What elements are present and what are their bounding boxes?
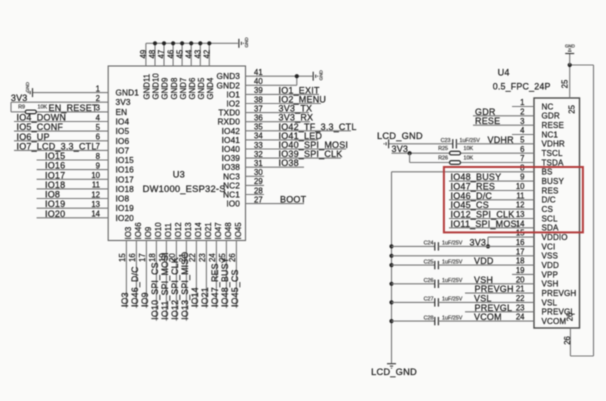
- svg-text:LCD_GND: LCD_GND: [377, 131, 423, 141]
- svg-text:18: 18: [516, 257, 525, 266]
- svg-text:VDDIO: VDDIO: [542, 233, 568, 242]
- svg-text:9: 9: [520, 173, 524, 182]
- svg-text:IO5_CONF: IO5_CONF: [17, 122, 64, 132]
- svg-text:3V3: 3V3: [11, 93, 28, 103]
- svg-text:PREVGH: PREVGH: [542, 289, 577, 298]
- svg-text:VPP: VPP: [542, 270, 559, 279]
- svg-text:PREVGH: PREVGH: [475, 284, 514, 294]
- svg-text:10K: 10K: [38, 105, 48, 111]
- svg-text:3V3: 3V3: [470, 237, 487, 247]
- svg-text:IO19: IO19: [116, 203, 135, 213]
- svg-text:IO20: IO20: [116, 213, 135, 223]
- svg-text:3V3_RX: 3V3_RX: [279, 113, 314, 123]
- svg-text:RESE: RESE: [475, 116, 500, 126]
- svg-text:IO48_BUSY: IO48_BUSY: [220, 257, 230, 307]
- svg-text:BOOT: BOOT: [280, 195, 307, 205]
- svg-text:C24: C24: [424, 241, 434, 247]
- svg-text:IO42_TF_3.3_CTL: IO42_TF_3.3_CTL: [279, 122, 357, 132]
- svg-text:11: 11: [516, 191, 524, 200]
- svg-text:TSCL: TSCL: [542, 149, 563, 158]
- svg-text:20: 20: [516, 275, 525, 284]
- svg-text:3V3_TX: 3V3_TX: [279, 104, 313, 114]
- svg-text:26: 26: [563, 336, 572, 345]
- svg-text:IO18: IO18: [45, 180, 65, 190]
- svg-text:C23: C23: [441, 138, 451, 144]
- svg-text:VDHR: VDHR: [488, 135, 515, 145]
- svg-text:R25: R25: [438, 146, 448, 152]
- svg-text:9: 9: [96, 161, 100, 170]
- svg-text:13: 13: [516, 210, 525, 219]
- svg-text:10: 10: [516, 182, 525, 191]
- svg-text:1uF/25V: 1uF/25V: [442, 315, 463, 321]
- svg-text:17: 17: [516, 247, 525, 256]
- svg-text:VSL: VSL: [542, 298, 558, 307]
- svg-text:IO16: IO16: [45, 161, 65, 171]
- svg-text:10K: 10K: [464, 146, 474, 152]
- svg-text:GND1: GND1: [116, 88, 140, 98]
- svg-text:IO47: IO47: [214, 222, 223, 239]
- svg-text:21: 21: [516, 285, 525, 294]
- svg-text:1uF/25V: 1uF/25V: [442, 297, 463, 303]
- svg-text:IO2_MENU: IO2_MENU: [279, 95, 327, 105]
- svg-text:IO38: IO38: [279, 158, 299, 168]
- svg-text:IO19: IO19: [45, 199, 65, 209]
- svg-text:1uF/25V: 1uF/25V: [442, 241, 463, 247]
- svg-text:IO39_SPI_CLK: IO39_SPI_CLK: [279, 149, 343, 159]
- svg-text:CS: CS: [542, 205, 554, 214]
- svg-text:IO4_DOWN: IO4_DOWN: [17, 113, 67, 123]
- svg-text:23: 23: [516, 303, 525, 312]
- svg-text:18: 18: [148, 253, 157, 262]
- svg-text:SCL: SCL: [542, 214, 558, 223]
- svg-text:GND4: GND4: [206, 77, 215, 99]
- svg-text:43: 43: [194, 50, 203, 59]
- svg-text:C28: C28: [424, 315, 434, 321]
- svg-text:GND9: GND9: [161, 78, 170, 100]
- svg-text:16: 16: [128, 253, 137, 262]
- svg-text:IO9: IO9: [144, 227, 153, 240]
- svg-text:3: 3: [520, 117, 524, 126]
- svg-text:IO12_SPI_CLK: IO12_SPI_CLK: [170, 257, 180, 320]
- svg-text:GND: GND: [319, 70, 324, 81]
- svg-text:6: 6: [520, 145, 524, 154]
- svg-text:32: 32: [254, 150, 263, 159]
- svg-text:22: 22: [516, 294, 525, 303]
- svg-text:NC: NC: [542, 102, 554, 111]
- svg-text:24: 24: [208, 253, 217, 262]
- svg-text:IO8: IO8: [116, 194, 130, 204]
- svg-text:GND: GND: [565, 43, 575, 48]
- svg-text:D/C: D/C: [542, 196, 556, 205]
- svg-text:VDD: VDD: [474, 256, 494, 266]
- svg-text:IO11: IO11: [164, 223, 173, 240]
- svg-text:IO20: IO20: [45, 209, 65, 219]
- svg-text:RESE: RESE: [542, 121, 565, 130]
- svg-text:SDA: SDA: [542, 224, 559, 233]
- svg-text:VCOM: VCOM: [542, 317, 567, 326]
- svg-text:IO14: IO14: [194, 222, 203, 240]
- svg-text:IO45_CS: IO45_CS: [230, 269, 240, 307]
- svg-text:22: 22: [188, 253, 197, 262]
- svg-text:IO1_EXIT: IO1_EXIT: [279, 85, 320, 95]
- svg-text:17: 17: [138, 253, 147, 262]
- svg-text:IO5: IO5: [116, 126, 130, 136]
- svg-text:IO45: IO45: [234, 222, 243, 240]
- svg-text:IO15: IO15: [45, 151, 65, 161]
- svg-text:GND: GND: [244, 37, 249, 48]
- svg-text:GND6: GND6: [188, 78, 197, 100]
- svg-text:R26: R26: [438, 155, 448, 161]
- svg-text:IO4: IO4: [116, 117, 130, 127]
- svg-text:1uF/25V: 1uF/25V: [442, 259, 463, 265]
- svg-text:IO46_D/C: IO46_D/C: [130, 266, 140, 307]
- svg-text:EN_RESET: EN_RESET: [49, 103, 98, 113]
- svg-text:VDD: VDD: [542, 261, 559, 270]
- svg-text:16: 16: [516, 238, 525, 247]
- svg-text:C27: C27: [424, 297, 434, 303]
- svg-text:IO47_RES: IO47_RES: [210, 263, 220, 307]
- svg-text:26: 26: [228, 253, 237, 262]
- svg-text:25: 25: [561, 79, 570, 88]
- svg-text:IO0: IO0: [226, 199, 240, 209]
- svg-text:R9: R9: [18, 105, 25, 111]
- svg-text:42: 42: [203, 50, 212, 59]
- svg-text:IO10: IO10: [154, 222, 163, 240]
- svg-text:C25: C25: [424, 259, 434, 265]
- svg-text:10K: 10K: [464, 155, 474, 161]
- svg-text:IO10_SPI_CS: IO10_SPI_CS: [150, 262, 160, 319]
- svg-text:4: 4: [520, 126, 525, 135]
- svg-text:IO17: IO17: [45, 170, 65, 180]
- svg-text:EN: EN: [116, 107, 128, 117]
- svg-text:VCOM: VCOM: [474, 312, 502, 322]
- svg-text:5: 5: [96, 123, 101, 132]
- svg-text:24: 24: [516, 313, 525, 322]
- svg-text:IO40_SPI_MOSI: IO40_SPI_MOSI: [279, 140, 349, 150]
- svg-text:IO15: IO15: [116, 155, 135, 165]
- svg-text:VSH: VSH: [542, 280, 559, 289]
- svg-text:VCI: VCI: [542, 242, 556, 251]
- svg-text:IO7: IO7: [116, 145, 130, 155]
- svg-text:12: 12: [516, 201, 525, 210]
- svg-text:GND7: GND7: [179, 78, 188, 100]
- svg-text:IO21: IO21: [200, 287, 210, 307]
- svg-text:IO9: IO9: [140, 292, 150, 307]
- svg-text:49: 49: [139, 50, 148, 59]
- svg-text:23: 23: [198, 253, 207, 262]
- svg-text:GND5: GND5: [197, 77, 206, 99]
- svg-text:NC1: NC1: [542, 130, 559, 139]
- svg-text:44: 44: [184, 49, 193, 58]
- svg-text:U3: U3: [173, 170, 185, 180]
- svg-text:47: 47: [157, 50, 166, 59]
- svg-text:0.5_FPC_24P: 0.5_FPC_24P: [493, 81, 551, 91]
- svg-text:RES: RES: [542, 186, 559, 195]
- svg-text:5: 5: [520, 135, 525, 144]
- svg-text:BS: BS: [542, 168, 553, 177]
- svg-text:LCD_GND: LCD_GND: [371, 367, 417, 377]
- svg-text:2: 2: [520, 107, 524, 116]
- svg-text:48: 48: [148, 50, 157, 59]
- svg-text:IO3: IO3: [120, 292, 130, 307]
- svg-text:26: 26: [566, 313, 575, 322]
- svg-text:25: 25: [567, 104, 576, 113]
- svg-text:C26: C26: [424, 278, 434, 284]
- svg-text:PREVGL: PREVGL: [475, 303, 513, 313]
- svg-text:IO6_UP: IO6_UP: [17, 132, 50, 142]
- svg-text:DW1000_ESP32-S: DW1000_ESP32-S: [143, 183, 226, 194]
- svg-text:IO17: IO17: [116, 174, 135, 184]
- svg-text:IO12: IO12: [174, 222, 183, 239]
- svg-text:IO3: IO3: [124, 227, 133, 240]
- svg-text:1uF/25V: 1uF/25V: [442, 278, 463, 284]
- svg-text:15: 15: [118, 253, 127, 262]
- svg-text:IO7_LCD_3.3_CTL: IO7_LCD_3.3_CTL: [17, 141, 97, 151]
- svg-text:IO11_SPI_MOSI: IO11_SPI_MOSI: [451, 219, 520, 229]
- svg-text:GND11: GND11: [143, 74, 152, 100]
- svg-text:19: 19: [516, 266, 525, 275]
- svg-text:IO6: IO6: [116, 136, 130, 146]
- svg-text:46: 46: [166, 50, 175, 59]
- svg-text:GDR: GDR: [542, 112, 560, 121]
- svg-text:27: 27: [254, 195, 263, 204]
- svg-text:IO21: IO21: [204, 222, 213, 239]
- svg-text:3V3: 3V3: [116, 97, 131, 107]
- svg-text:BUSY: BUSY: [542, 177, 565, 186]
- svg-text:1uF/25V: 1uF/25V: [460, 138, 481, 144]
- svg-text:GND10: GND10: [152, 73, 161, 100]
- svg-text:GND8: GND8: [170, 78, 179, 100]
- svg-text:GND: GND: [25, 81, 30, 92]
- svg-text:VDHR: VDHR: [542, 140, 565, 149]
- svg-text:IO13: IO13: [184, 222, 193, 239]
- svg-text:IO18: IO18: [116, 184, 135, 194]
- svg-text:7: 7: [520, 154, 524, 163]
- svg-text:IO8: IO8: [45, 190, 60, 200]
- svg-text:45: 45: [175, 49, 184, 58]
- svg-text:IO16: IO16: [116, 165, 135, 175]
- svg-text:VSS: VSS: [542, 252, 559, 261]
- svg-text:IO14: IO14: [190, 287, 200, 307]
- svg-text:1: 1: [520, 98, 524, 107]
- svg-text:IO48: IO48: [224, 222, 233, 239]
- svg-text:U4: U4: [498, 68, 510, 78]
- svg-text:IO46: IO46: [134, 222, 143, 239]
- svg-text:IO41_LED: IO41_LED: [279, 131, 323, 141]
